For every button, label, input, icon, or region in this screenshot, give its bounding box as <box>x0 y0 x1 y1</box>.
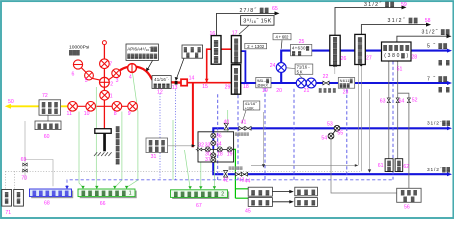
svg-text:▓: ▓ <box>5 198 9 205</box>
wire: gray drop line with down arrow at x263.5 <box>263 112 265 165</box>
node: heat exchanger drain dot <box>360 64 362 66</box>
svg-text:▓: ▓ <box>116 132 120 139</box>
svg-text:23: 23 <box>343 89 349 95</box>
N2 pump box <box>248 198 272 207</box>
desander vessel <box>211 36 221 65</box>
svg-text:▓: ▓ <box>387 160 391 167</box>
wire: control line tree valve 11 <box>79 112 83 188</box>
valve 8 <box>112 102 122 112</box>
valve 10 <box>86 102 96 112</box>
wire: frac pump to test arrow <box>272 191 290 193</box>
valve 64 <box>396 98 399 103</box>
svg-text:▓: ▓ <box>397 160 401 167</box>
svg-text:40: 40 <box>224 120 230 126</box>
svg-text:▓: ▓ <box>116 152 120 159</box>
svg-text:43: 43 <box>239 178 245 184</box>
svg-text:65: 65 <box>272 6 278 12</box>
svg-text:41/16˝·: 41/16˝· <box>154 77 169 82</box>
valve 7 <box>100 59 110 69</box>
wire: dashed data line x265 <box>264 88 266 180</box>
svg-text:14: 14 <box>189 75 195 81</box>
boiler 2 box <box>14 190 24 207</box>
wire: v6-v5 diagonal <box>81 67 87 73</box>
wire: red desander to choke manifold 1 <box>221 48 232 50</box>
frac manifold white fill (under dashed lines) <box>198 132 234 162</box>
svg-text:27: 27 <box>366 55 372 61</box>
test box 2 <box>295 198 318 207</box>
wire: yellow relief line to drilling choke manifold <box>9 105 68 107</box>
svg-text:60: 60 <box>44 134 50 140</box>
wire: blue main line 3 (3 1/2" tubing) from frac manifold top <box>213 128 448 132</box>
svg-text:24: 24 <box>270 63 276 69</box>
svg-text:▓: ▓ <box>214 56 219 63</box>
wire: valves 69/70 column <box>24 121 26 180</box>
wire: separator drop line to water tank (valve 64) <box>397 61 399 158</box>
annotation: API6A flange note <box>126 44 158 71</box>
svg-text:▓▓▓▓: ▓▓▓▓ <box>38 122 59 129</box>
wire: control line tree area long <box>172 120 174 180</box>
svg-text:16: 16 <box>210 31 216 37</box>
valve 34 <box>211 141 216 146</box>
wire: separator drop line to oil tank (valve 63) <box>388 61 390 158</box>
svg-text:3⁹/₁₆˝ 15K: 3⁹/₁₆˝ 15K <box>243 18 271 25</box>
svg-text:▓: ▓ <box>5 191 9 198</box>
wire: 31/2 tubing arrow 58 from heat exchanger <box>361 25 427 35</box>
svg-text:▓▓▓: ▓▓▓ <box>42 108 58 115</box>
valve 6 (gauge valve) <box>73 60 82 69</box>
valve 30 <box>211 153 216 158</box>
annotation: 4-602 note <box>273 34 291 49</box>
wire: red main line choke to choke manifold box <box>187 82 231 84</box>
svg-text:37: 37 <box>205 157 211 163</box>
svg-text:36: 36 <box>216 134 222 140</box>
wire: 31/2 tubing arrow 59 from relief valve <box>335 7 403 35</box>
svg-text:1: 1 <box>110 94 113 100</box>
valve 52 <box>407 98 410 103</box>
valve 24 <box>276 63 286 73</box>
valve 21 pair <box>296 78 306 88</box>
svg-text:▓▓▓: ▓▓▓ <box>251 199 269 206</box>
valve 53 <box>334 125 340 131</box>
svg-text:34: 34 <box>216 141 222 147</box>
DAQ system box <box>30 189 74 198</box>
wire: tree wing row (red) <box>68 105 138 107</box>
wire: manifold center cross <box>198 132 234 162</box>
svg-text:31/2˝▓▓: 31/2˝▓▓ <box>427 166 451 173</box>
svg-text:▓: ▓ <box>116 139 120 146</box>
svg-text:26: 26 <box>341 56 347 62</box>
wire: bracket to valve 52 line down to tank battery <box>398 93 409 188</box>
svg-text:▓: ▓ <box>17 198 21 205</box>
annotation: 41/16 10K note <box>242 101 260 124</box>
plug sensor 13 <box>175 81 178 85</box>
svg-text:29: 29 <box>225 84 231 90</box>
downhole safety valve symbol <box>94 129 112 156</box>
wire: 31/2 tubing arrow from separator <box>397 36 448 42</box>
wire: dashed data line x294 <box>293 89 295 180</box>
svg-text:56: 56 <box>404 204 410 210</box>
svg-text:▓▓▓: ▓▓▓ <box>149 139 165 146</box>
svg-text:71: 71 <box>5 210 11 216</box>
wire: control line tree valve 8 <box>115 112 122 188</box>
wire: N2 pump to test arrow <box>272 201 290 203</box>
relief valve 40 on line3 <box>224 123 228 130</box>
valve 3 <box>112 69 121 78</box>
svg-text:8: 8 <box>114 111 117 117</box>
valve 9 <box>128 102 138 112</box>
valve 63 <box>387 98 390 103</box>
wire: dashed data line 23 <box>346 89 348 179</box>
valve 54 <box>328 133 334 139</box>
svg-text:2 + 1302: 2 + 1302 <box>247 44 265 49</box>
svg-text:63: 63 <box>380 98 386 104</box>
svg-text:▓: ▓ <box>214 48 219 55</box>
svg-text:72: 72 <box>42 93 48 99</box>
hydraulic valve platform 1 box <box>78 189 137 198</box>
annotation: 4-630 wellhead note <box>291 44 312 56</box>
svg-text:▓: ▓ <box>333 49 337 56</box>
wire: relief valve lower stem <box>334 66 336 74</box>
annotation: 71/16-5K note <box>286 64 313 79</box>
svg-text:▓▓▓▓▓: ▓▓▓▓▓ <box>229 166 243 170</box>
valve 33 <box>205 147 210 152</box>
svg-text:10: 10 <box>84 111 90 117</box>
wire: data dotted line 12 <box>159 94 161 181</box>
svg-text:▓▓▓: ▓▓▓ <box>297 189 315 196</box>
wire: manifold blue inlet vertical <box>212 132 214 149</box>
wire: v5-v2 diagonal <box>92 78 101 80</box>
choke manifold 2 <box>231 65 240 95</box>
wire: boiler risers dotted <box>5 171 14 189</box>
wire: control line tree valve 9 <box>127 73 138 187</box>
annotation: 3 9/16 15K note <box>239 16 274 35</box>
valve 4 (choke body) <box>128 64 137 73</box>
svg-text:▓: ▓ <box>116 126 120 133</box>
svg-text:55: 55 <box>337 131 343 137</box>
svg-text:▓: ▓ <box>397 166 401 173</box>
svg-text:5K: 5K <box>297 69 303 74</box>
wire: dashed data line from sensor x217.7 <box>217 94 219 180</box>
choke group valves 43 <box>235 172 241 176</box>
svg-text:62: 62 <box>403 164 409 170</box>
wire: manifold left stub <box>196 149 198 151</box>
wire: blue from choke manifold1 down to line2 <box>241 51 245 83</box>
svg-text:7: 7 <box>109 61 112 67</box>
wire: diverter manifold link arrow <box>168 145 193 147</box>
svg-text:54: 54 <box>321 136 327 142</box>
svg-text:▓▓▓: ▓▓▓ <box>401 189 417 196</box>
wire: control line manifold valve19 vertical <box>227 110 229 160</box>
yellow arrowhead <box>5 104 11 109</box>
oil tank <box>385 159 393 173</box>
wire: choke manifold connector <box>47 115 49 121</box>
svg-text:28: 28 <box>411 55 417 61</box>
wire: control line to platform2 a <box>185 150 191 188</box>
svg-text:5: 5 <box>85 78 88 84</box>
annotation: 2-1302 note <box>245 43 267 48</box>
test box 1 <box>295 187 318 196</box>
svg-text:4: 4 <box>129 75 132 81</box>
svg-text:31/2˝ ▓▓: 31/2˝ ▓▓ <box>364 1 394 8</box>
svg-text:31/2˝▓▓: 31/2˝▓▓ <box>427 119 451 126</box>
svg-text:64: 64 <box>399 98 405 104</box>
valve 37 <box>211 157 216 162</box>
svg-text:▓▓▓: ▓▓▓ <box>69 49 80 56</box>
svg-text:31/2˝ ▓▓: 31/2˝ ▓▓ <box>388 17 418 24</box>
svg-text:4 + 602: 4 + 602 <box>276 35 290 40</box>
manifold inlet bowtie <box>197 148 201 151</box>
wire: gray feed with right arrow <box>251 164 356 166</box>
wire: red tee down to frac manifold <box>192 83 194 148</box>
svg-text:68: 68 <box>44 200 50 206</box>
svg-text:67: 67 <box>196 203 202 209</box>
wire: control line tree valve 5 <box>95 87 97 188</box>
wire: boiler steam dotted horizontal <box>5 170 361 172</box>
svg-text:19: 19 <box>227 152 233 158</box>
node 15 arrow <box>205 79 209 83</box>
svg-text:61: 61 <box>378 163 384 169</box>
wire: tree vertical stem (red) <box>103 45 105 129</box>
hydraulic valve platform 2 box <box>171 190 230 199</box>
svg-text:6: 6 <box>72 72 75 78</box>
choke square 14 <box>181 79 187 86</box>
tank battery box <box>397 188 421 202</box>
svg-text:41: 41 <box>241 120 247 126</box>
svg-text:33: 33 <box>205 142 211 148</box>
svg-text:31: 31 <box>151 154 157 160</box>
wire: control line to platform2 c <box>213 162 215 188</box>
annotation: flow data note on line2 <box>256 77 271 87</box>
wire: 53-54 diagonal <box>333 130 336 134</box>
wire: blue main line 1 (5" casing) with riser through valve24 <box>281 51 448 83</box>
gauge on tree top <box>102 41 106 45</box>
svg-text:70: 70 <box>21 175 27 181</box>
valve 11 <box>68 102 78 112</box>
relief valve 42 on line4 <box>223 170 227 177</box>
svg-text:45: 45 <box>245 209 251 215</box>
safety relief valve vessel <box>330 35 340 67</box>
diverter sand-jet manifold box <box>146 138 168 153</box>
svg-text:18: 18 <box>243 84 249 90</box>
svg-text:5 ˝ ▓▓: 5 ˝ ▓▓ <box>427 42 447 49</box>
svg-text:58: 58 <box>425 18 431 24</box>
svg-text:19: 19 <box>262 88 268 94</box>
svg-text:9: 9 <box>128 111 131 117</box>
svg-text:▓: ▓ <box>116 158 120 165</box>
svg-text:25: 25 <box>299 39 305 45</box>
svg-text:50: 50 <box>8 99 14 105</box>
svg-text:+10K: +10K <box>245 105 254 110</box>
svg-text:12: 12 <box>157 89 163 95</box>
valve 19 <box>227 147 232 152</box>
svg-text:66: 66 <box>100 201 106 207</box>
wire: dashed data line from separator <box>392 61 394 179</box>
svg-text:32: 32 <box>198 142 204 148</box>
svg-text:▓: ▓ <box>333 37 337 44</box>
svg-text:53: 53 <box>327 122 333 128</box>
wire: control line to platform2 b <box>200 162 202 188</box>
three-phase separator <box>382 42 412 61</box>
svg-text:@84.X: @84.X <box>257 82 268 87</box>
annotation: N611 note on line2 <box>338 78 354 89</box>
wire: bright green to frac pump / N2 pump <box>234 149 249 198</box>
boiler 1 box <box>2 190 12 207</box>
valve 5 <box>85 71 94 80</box>
svg-text:▓▓▓: ▓▓▓ <box>42 101 58 108</box>
svg-text:52: 52 <box>412 98 418 104</box>
svg-text:2: 2 <box>110 82 113 88</box>
choke group valves 41 <box>239 126 245 130</box>
valve 70 <box>23 169 27 172</box>
wire: dashed data line x238 <box>237 95 239 180</box>
svg-text:▓: ▓ <box>387 166 391 173</box>
wire: valve54 drain to tank battery <box>331 139 397 193</box>
svg-text:10000Psi: 10000Psi <box>69 44 89 50</box>
svg-text:18: 18 <box>217 152 223 158</box>
drilling choke manifold box <box>39 100 61 115</box>
annotation: acid-resistant plug note <box>152 76 171 89</box>
wire: blue main line 4 (3 1/2" tubing) from frac manifold bottom <box>213 162 448 174</box>
choke manifold 1 <box>231 36 241 65</box>
label: downhole safety valve vertical <box>116 126 120 166</box>
svg-text:▓▓▓: ▓▓▓ <box>149 146 165 153</box>
needle valve 22 <box>323 81 329 85</box>
svg-text:3: 3 <box>116 78 119 84</box>
valve 2 (master, gauge tee) <box>100 77 110 87</box>
svg-text:▓: ▓ <box>333 43 337 50</box>
annotation: sand monitor note <box>175 45 203 81</box>
svg-text:▓: ▓ <box>17 191 21 198</box>
svg-text:▓: ▓ <box>116 145 120 152</box>
svg-text:▓▓▓▓▓: ▓▓▓▓▓ <box>235 132 249 136</box>
water tank <box>395 159 403 173</box>
frac pump box <box>248 187 272 196</box>
wire: heat exchanger condensate pair <box>357 65 359 165</box>
valve 36 <box>211 133 216 138</box>
svg-text:44: 44 <box>245 178 251 184</box>
svg-text:31/2˝ ▓▓: 31/2˝ ▓▓ <box>422 28 450 35</box>
svg-text:7 ˝ ▓▓: 7 ˝ ▓▓ <box>427 76 447 83</box>
svg-text:15: 15 <box>202 84 208 90</box>
svg-text:11: 11 <box>67 111 72 117</box>
svg-text:42: 42 <box>223 178 229 184</box>
svg-text:51: 51 <box>397 67 403 73</box>
svg-text:13: 13 <box>172 85 178 91</box>
svg-text:▓▓▓: ▓▓▓ <box>297 199 315 206</box>
svg-text:17: 17 <box>232 30 238 36</box>
svg-text:59: 59 <box>401 2 407 8</box>
valve 69 <box>23 163 27 166</box>
heat exchanger vessel <box>355 34 366 65</box>
wire: dashed data bus horizontal into DAQ box <box>67 180 393 188</box>
wire: 27/8 tubing arrow from desander <box>217 13 277 35</box>
svg-text:69: 69 <box>21 157 27 163</box>
wire: branch to DAQ <box>25 160 53 187</box>
svg-text:27/8˝ ▓▓: 27/8˝ ▓▓ <box>240 7 269 14</box>
wire: thick flowline from valve3 through valve4 curving to plug (red) <box>120 66 182 82</box>
wire: N611 drop with down arrow onto line4 <box>369 89 371 170</box>
wire: blue main line 2 (7" casing) <box>241 82 449 84</box>
frac manifold box <box>198 132 234 162</box>
svg-text:21: 21 <box>304 88 310 94</box>
valve 1 <box>100 90 110 100</box>
svg-text:▓▓▓: ▓▓▓ <box>251 189 269 196</box>
kill truck box <box>35 121 61 130</box>
wire: data dotted line 13 <box>175 90 177 181</box>
valve 18 <box>217 147 222 152</box>
wire: red branch up to desander <box>207 49 212 82</box>
svg-text:▓: ▓ <box>214 40 219 47</box>
svg-text:▓: ▓ <box>333 60 337 67</box>
svg-text:22: 22 <box>323 74 329 80</box>
svg-text:20: 20 <box>276 88 282 94</box>
wire: v3-v2 diagonal <box>108 77 113 81</box>
